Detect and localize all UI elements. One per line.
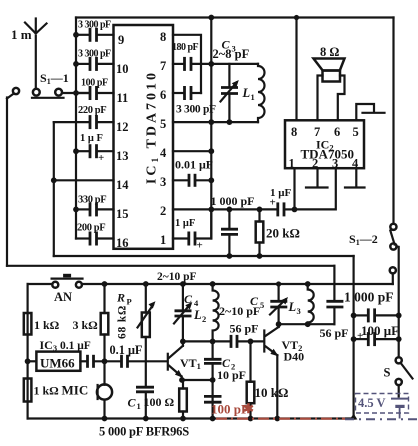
capacitor 0.1uF (to VT1 base): [120, 355, 123, 368]
svg-text:3: 3: [160, 175, 166, 189]
wire: pin 5 to ground stub: [356, 104, 374, 120]
wire: right rail down to S1-2: [392, 18, 394, 224]
svg-text:100 μF: 100 μF: [361, 323, 399, 338]
ground (pin 5): [363, 112, 385, 114]
push button AN: [52, 274, 83, 288]
svg-text:S: S: [384, 366, 391, 380]
svg-text:8: 8: [160, 30, 166, 44]
svg-text:56 pF: 56 pF: [230, 322, 259, 336]
resistor 3k: [101, 313, 109, 335]
svg-text:P: P: [127, 297, 132, 307]
wire: TX top rail (line D): [28, 283, 53, 285]
wire: VT1 emitter node row: [182, 379, 213, 381]
svg-text:6: 6: [160, 88, 166, 102]
svg-text:R: R: [116, 291, 125, 305]
svg-text:14: 14: [116, 178, 129, 192]
capacitor 3300pF (pin 6): [173, 92, 184, 94]
wire: VT1 collector node row: [183, 340, 230, 342]
svg-text:L: L: [288, 300, 297, 314]
svg-text:0.01 μF: 0.01 μF: [175, 158, 213, 172]
svg-text:5: 5: [160, 117, 166, 131]
svg-text:C: C: [250, 294, 259, 308]
capacitor C5 2~10pF trimmer: [278, 284, 280, 300]
svg-text:D40: D40: [284, 350, 305, 364]
svg-text:+: +: [197, 240, 203, 252]
svg-text:10: 10: [116, 62, 129, 76]
capacitor 330pF (pin 15): [89, 202, 92, 216]
resistor 100 ohm (VT1 emitter): [182, 380, 184, 389]
svg-text:200 pF: 200 pF: [77, 223, 105, 234]
capacitor 200pF (pin 16): [89, 232, 92, 246]
inductor L1: [258, 64, 265, 122]
annotation: red dash-dot overlay on ground rail: [216, 418, 345, 420]
op-amp IC1 TDA7010 box: [114, 25, 174, 249]
capacitor 1uF electrolytic (pin 1): [173, 237, 188, 239]
svg-text:220 pF: 220 pF: [78, 105, 106, 116]
svg-text:AN: AN: [54, 290, 72, 304]
svg-text:✱: ✱: [243, 401, 254, 416]
svg-text:0.1 μF: 0.1 μF: [110, 343, 143, 357]
switch S: [396, 357, 413, 385]
ground (IC2 pin 2): [316, 168, 318, 186]
capacitor 100pF (VT1 emitter bypass, red-labelled): [204, 395, 222, 398]
svg-text:1: 1: [251, 92, 255, 102]
capacitor 1uF electrolytic (pin 13): [76, 150, 89, 152]
svg-text:100 Ω: 100 Ω: [144, 395, 175, 409]
capacitor C2 10pF: [212, 341, 214, 358]
wire: pin 4 to bus A2: [173, 150, 211, 152]
svg-text:+: +: [270, 197, 276, 209]
microphone MIC: [97, 384, 112, 399]
wire: ground bottom rail: [28, 417, 355, 419]
capacitor 100pF (pin 11): [76, 92, 89, 94]
svg-text:8 Ω: 8 Ω: [320, 45, 339, 59]
capacitor 56pF (antenna coupling, on line C): [333, 266, 335, 301]
svg-text:9: 9: [118, 33, 124, 47]
svg-text:56 pF: 56 pF: [320, 326, 349, 340]
capacitor 100uF electrolytic: [354, 338, 368, 340]
svg-text:1 kΩ: 1 kΩ: [34, 384, 60, 398]
wire: pin 5 row to tank bottom: [173, 121, 258, 123]
wire: left cap bus (bus A): [75, 18, 77, 239]
svg-text:20 kΩ: 20 kΩ: [266, 226, 300, 241]
wire: pin 14 direct from line B: [54, 179, 114, 181]
svg-text:8: 8: [291, 125, 297, 139]
svg-text:IC1 TDA7010: IC1 TDA7010: [145, 70, 162, 184]
speaker 8 ohm: [314, 59, 345, 82]
ground (IC2 pin 4): [355, 168, 357, 186]
svg-text:68 kΩ: 68 kΩ: [117, 305, 129, 339]
svg-text:4.5 V: 4.5 V: [358, 396, 386, 410]
svg-text:12: 12: [116, 120, 129, 134]
svg-text:L: L: [242, 86, 251, 100]
svg-text:2~10 pF: 2~10 pF: [157, 271, 197, 283]
transistor VT2 D40: [264, 324, 278, 418]
capacitor 220pF (pin 12): [54, 121, 89, 123]
svg-text:4: 4: [160, 146, 167, 160]
svg-text:10 pF: 10 pF: [217, 368, 246, 382]
wire: top VCC rail: [76, 16, 394, 18]
wire: speaker to pin 7: [318, 76, 323, 121]
potentiometer Rp 68k: [145, 284, 147, 313]
svg-text:5: 5: [353, 125, 359, 139]
svg-text:S1—2: S1—2: [349, 232, 378, 247]
svg-text:180 pF: 180 pF: [172, 42, 199, 53]
wire: TX antenna line C (left vertical + long horizontal): [7, 94, 14, 99]
svg-text:S1—1: S1—1: [40, 71, 69, 86]
svg-text:2: 2: [160, 204, 166, 218]
svg-text:1: 1: [137, 401, 141, 411]
resistor 10k (VT2 base): [249, 341, 251, 381]
svg-text:1 000 pF: 1 000 pF: [211, 194, 255, 208]
antenna: [25, 19, 47, 89]
wire: VCC bus A2 (right of IC1): [210, 18, 212, 239]
capacitor 3300pF (pin 10): [76, 63, 89, 65]
svg-text:3: 3: [297, 306, 301, 316]
capacitor 56pF (coupling to VT2): [230, 335, 233, 348]
svg-text:1 000 pF: 1 000 pF: [344, 290, 394, 305]
wire: speaker to pin 6 (jog): [338, 76, 345, 121]
battery 4.5V: [398, 385, 400, 396]
inductor L2: [213, 284, 219, 341]
wire: S1-2 common to battery column: [397, 247, 399, 358]
svg-text:L: L: [193, 308, 202, 322]
capacitor 3300pF (pin 9): [76, 34, 89, 36]
capacitor C1 5000pF: [136, 386, 154, 389]
wire: IC2 pin 8 to VCC rail: [295, 18, 297, 121]
svg-text:5 000 pF BFR96S: 5 000 pF BFR96S: [99, 425, 189, 439]
svg-text:1: 1: [289, 157, 295, 171]
capacitor 0.1uF (UM66 out): [80, 360, 86, 362]
svg-text:3 300 pF: 3 300 pF: [78, 49, 111, 60]
svg-text:10 kΩ: 10 kΩ: [255, 385, 289, 400]
node: line B bottom junction (triangle mark): [350, 414, 358, 420]
node: bus A junction dots: [73, 32, 79, 38]
svg-text:C: C: [184, 292, 193, 306]
wire: TX left column: [27, 284, 29, 419]
svg-text:2~8 pF: 2~8 pF: [213, 47, 250, 61]
svg-text:5: 5: [260, 300, 264, 310]
transistor VT1 BFR96S: [168, 341, 183, 380]
svg-text:C: C: [128, 396, 137, 410]
wire: pin 8 jog down to pin7 row: [173, 35, 201, 93]
resistor 20k: [258, 209, 260, 221]
svg-text:100 pF: 100 pF: [81, 78, 108, 89]
svg-text:TDA7050: TDA7050: [301, 147, 354, 162]
svg-text:13: 13: [116, 149, 129, 163]
capacitor 0.01uF (pin 3): [173, 179, 188, 181]
wire: IC2 pin1 and pin3 joint: [293, 168, 295, 209]
svg-text:1 μ F: 1 μ F: [80, 133, 103, 144]
annotation: blue dash overlay on ground rail: [345, 418, 418, 420]
svg-text:1: 1: [160, 233, 166, 247]
capacitor 1000pF (supply decoupling): [354, 314, 368, 316]
capacitor C4 2~10pF trimmer: [182, 284, 184, 310]
svg-text:330 pF: 330 pF: [78, 195, 106, 206]
svg-text:3 300 pF: 3 300 pF: [176, 104, 216, 116]
svg-text:1 μF: 1 μF: [175, 218, 195, 229]
svg-text:16: 16: [116, 236, 129, 250]
svg-text:3 kΩ: 3 kΩ: [73, 318, 99, 332]
svg-text:UM66: UM66: [40, 356, 75, 371]
wire: mic column (3k / MIC): [103, 284, 105, 313]
svg-text:7: 7: [160, 59, 166, 73]
svg-text:1 kΩ: 1 kΩ: [34, 318, 60, 332]
annotation: blue dashed box around battery: [356, 394, 409, 414]
svg-text:3 300 pF: 3 300 pF: [78, 20, 111, 31]
wire: line B (common of pins 12/14 down and around): [53, 122, 55, 256]
capacitor 1000pF (to ground): [228, 209, 230, 228]
switch S1-2: [390, 224, 397, 284]
capacitor 180pF (pin 7): [173, 63, 184, 65]
capacitor C3 2~8pF trimmer: [221, 64, 239, 122]
svg-text:MIC: MIC: [62, 383, 89, 398]
IC UM66: [25, 358, 31, 364]
inductor L3: [308, 284, 314, 324]
svg-text:+: +: [98, 152, 104, 164]
svg-text:6: 6: [334, 125, 340, 139]
wire: VT2 tank row: [279, 323, 335, 325]
switch S1-1: [13, 88, 64, 98]
svg-text:1 m: 1 m: [11, 27, 32, 42]
svg-text:2: 2: [202, 314, 206, 324]
svg-text:11: 11: [117, 91, 129, 105]
op-amp IC2 TDA7050 box: [285, 120, 364, 168]
resistor 1k (upper): [24, 313, 32, 335]
wire: pin 2 row (AF out): [173, 208, 277, 210]
resistor 1k (lower): [24, 379, 32, 402]
svg-text:15: 15: [116, 207, 129, 221]
wire: tank top (pin7 row to L1): [211, 63, 258, 65]
wire: S1-1 to 100pF (pin11 row): [62, 92, 88, 94]
